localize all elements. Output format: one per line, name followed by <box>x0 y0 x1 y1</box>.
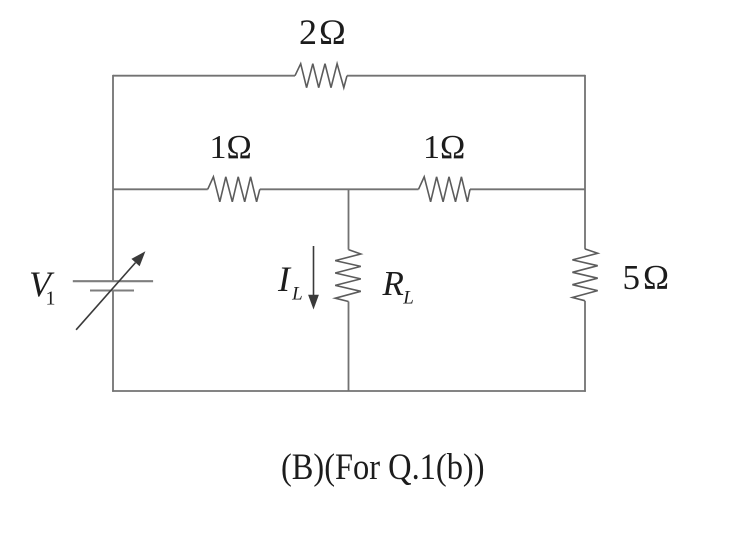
svg-text:2Ω: 2Ω <box>299 12 348 52</box>
svg-text:(B)(For Q.1(b)): (B)(For Q.1(b)) <box>281 447 485 488</box>
svg-text:I: I <box>277 259 292 299</box>
svg-text:L: L <box>402 287 414 308</box>
svg-text:1Ω: 1Ω <box>423 129 465 166</box>
svg-text:R: R <box>382 264 404 303</box>
svg-text:L: L <box>291 283 303 304</box>
svg-text:1: 1 <box>46 287 56 309</box>
svg-text:5Ω: 5Ω <box>623 258 673 297</box>
svg-text:1Ω: 1Ω <box>210 129 252 166</box>
